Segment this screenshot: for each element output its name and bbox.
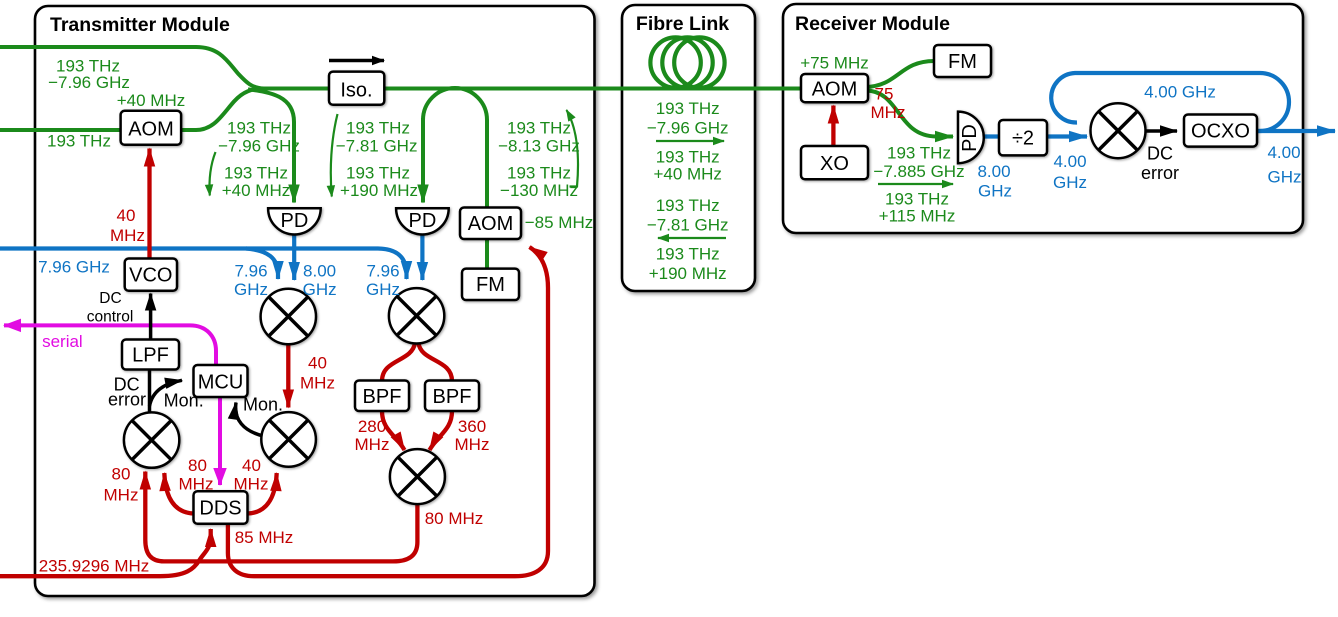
wire green coupler tap down to PD1 — [248, 89, 294, 202]
svg-text:4.00 GHz: 4.00 GHz — [1144, 83, 1216, 102]
svg-text:DC: DC — [99, 290, 121, 307]
DDS box — [194, 491, 248, 524]
svg-text:GHz: GHz — [234, 280, 268, 299]
svg-text:MHz: MHz — [104, 486, 139, 505]
wire red DDS to mixer3 80 MHz — [164, 473, 194, 514]
svg-text:+40 MHz: +40 MHz — [222, 181, 291, 200]
svg-text:GHz: GHz — [978, 182, 1012, 201]
svg-text:FM: FM — [948, 51, 977, 73]
svg-text:4.00: 4.00 — [1267, 143, 1300, 162]
mixer 6 — [1091, 103, 1146, 158]
FM1 box — [462, 269, 519, 300]
svg-text:MHz: MHz — [234, 475, 269, 494]
svg-text:40: 40 — [308, 354, 327, 373]
wire red VCO to AOM1 — [147, 149, 151, 261]
wire magenta serial output — [4, 325, 216, 366]
svg-text:193 THz: 193 THz — [656, 99, 720, 118]
svg-text:−7.81 GHz: −7.81 GHz — [336, 137, 418, 156]
svg-text:−7.81 GHz: −7.81 GHz — [647, 216, 729, 235]
svg-text:FM: FM — [476, 274, 505, 296]
XO box — [801, 146, 868, 179]
svg-text:193 THz: 193 THz — [887, 144, 951, 163]
svg-text:7.96: 7.96 — [234, 262, 267, 281]
svg-text:−7.96 GHz: −7.96 GHz — [647, 119, 729, 138]
wire red DDS 85 MHz to AOM2 — [228, 247, 548, 576]
wire black mixer4 monitor to MCU — [236, 403, 265, 437]
svg-text:XO: XO — [820, 153, 849, 175]
svg-text:AOM: AOM — [128, 119, 174, 141]
svg-text:error: error — [108, 390, 146, 410]
svg-text:193 THz: 193 THz — [346, 164, 410, 183]
wire green main line Iso to receiver AOM — [384, 87, 802, 91]
svg-text:40: 40 — [117, 206, 136, 225]
wire green AOM3 to PD3 — [866, 91, 953, 137]
svg-text:GHz: GHz — [1268, 168, 1302, 187]
svg-text:−8.13 GHz: −8.13 GHz — [498, 137, 580, 156]
wire green loop tap to PD2 and AOM2 — [423, 88, 487, 208]
wire black LPF to mixer3 — [148, 369, 152, 413]
FM2 box — [934, 45, 991, 77]
svg-text:+75 MHz: +75 MHz — [800, 54, 869, 73]
wire red XO to AOM3 — [831, 106, 835, 147]
svg-text:Mon.: Mon. — [164, 391, 204, 411]
svg-text:80: 80 — [112, 465, 131, 484]
wire magenta MCU to DDS — [218, 396, 222, 485]
svg-text:LPF: LPF — [132, 345, 169, 367]
OCXO box — [1184, 115, 1257, 147]
svg-text:80 MHz: 80 MHz — [425, 509, 484, 528]
AOM2 box — [460, 208, 521, 240]
wire blue PD3 to div2 — [982, 134, 1000, 138]
svg-text:75: 75 — [875, 85, 894, 104]
green annotation arrow PD1 column — [209, 152, 215, 196]
svg-text:error: error — [1141, 163, 1179, 183]
wire blue main 7.96 GHz line to mixer2 — [0, 249, 407, 280]
wire green AOM2 to FM — [485, 239, 489, 269]
wire blue PD1 to mixer1 — [292, 234, 296, 280]
fibre link module box — [622, 5, 755, 291]
svg-text:Iso.: Iso. — [340, 79, 372, 101]
MCU box — [194, 365, 248, 397]
svg-text:MHz: MHz — [355, 435, 390, 454]
svg-text:−85 MHz: −85 MHz — [525, 213, 594, 232]
svg-text:360: 360 — [458, 417, 486, 436]
svg-text:−130 MHz: −130 MHz — [500, 181, 578, 200]
svg-text:40: 40 — [242, 456, 261, 475]
svg-text:85 MHz: 85 MHz — [235, 528, 294, 547]
svg-text:AOM: AOM — [468, 213, 514, 235]
svg-text:MHz: MHz — [455, 435, 490, 454]
wire black mixer6 to OCXO DC error — [1145, 129, 1177, 133]
AOM3 box — [801, 74, 868, 102]
svg-text:GHz: GHz — [1053, 173, 1087, 192]
wire red BPF1 to mixer5 — [382, 411, 405, 450]
receiver module box — [783, 4, 1303, 233]
wire green AOM3 to FM2 — [866, 61, 934, 87]
wire blue div2 to mixer6 — [1047, 134, 1087, 138]
wire black monitor tap to MCU — [150, 380, 183, 406]
green annotation arrow receiver PD input — [878, 183, 953, 185]
wire red mixer2 to BPF1 — [382, 343, 415, 381]
svg-text:−7.885 GHz: −7.885 GHz — [873, 162, 964, 181]
PD3 photodiode — [958, 112, 984, 164]
svg-text:7.96: 7.96 — [366, 262, 399, 281]
svg-text:Transmitter Module: Transmitter Module — [50, 14, 230, 36]
BPF2 box — [425, 381, 479, 412]
wire red mixer5 output to mixer3 80 MHz — [145, 472, 417, 562]
svg-text:+190 MHz: +190 MHz — [340, 181, 418, 200]
mixer 4 — [261, 412, 316, 467]
svg-text:193 THz: 193 THz — [656, 196, 720, 215]
svg-text:AOM: AOM — [812, 79, 858, 101]
svg-text:193 THz: 193 THz — [227, 119, 291, 138]
svg-text:MHz: MHz — [871, 103, 906, 122]
wire blue OCXO output — [1257, 129, 1335, 133]
wire red BPF2 to mixer5 — [430, 411, 453, 450]
svg-text:193 THz: 193 THz — [507, 119, 571, 138]
green annotation arrow PD2 column — [331, 114, 338, 197]
svg-text:MHz: MHz — [179, 475, 214, 494]
svg-text:−7.96 GHz: −7.96 GHz — [48, 73, 130, 92]
svg-text:Receiver Module: Receiver Module — [795, 13, 950, 35]
svg-text:193 THz: 193 THz — [346, 119, 410, 138]
wire green input to AOM1 — [0, 128, 121, 132]
mixer 5 — [390, 449, 445, 504]
svg-text:7.96 GHz: 7.96 GHz — [38, 258, 110, 277]
wire black LPF to VCO DC control — [149, 294, 153, 342]
svg-text:BPF: BPF — [433, 386, 472, 408]
svg-text:193 THz: 193 THz — [47, 132, 111, 151]
svg-text:193 THz: 193 THz — [224, 164, 288, 183]
svg-text:MHz: MHz — [300, 374, 335, 393]
svg-text:193 THz: 193 THz — [507, 164, 571, 183]
BPF1 box — [355, 381, 409, 412]
svg-text:280: 280 — [358, 417, 386, 436]
wire green main line coupler to Iso — [258, 87, 331, 91]
svg-text:235.9296 MHz: 235.9296 MHz — [39, 557, 150, 576]
Iso box — [329, 72, 384, 105]
svg-text:DDS: DDS — [199, 498, 241, 520]
PD1 photodiode — [268, 208, 321, 234]
fibre coil circle right — [674, 37, 724, 87]
AOM1 box — [121, 111, 182, 145]
wire blue PD2 to mixer2 — [420, 234, 424, 280]
svg-text:80: 80 — [188, 456, 207, 475]
svg-text:control: control — [87, 309, 134, 326]
svg-text:4.00: 4.00 — [1053, 152, 1086, 171]
svg-text:+40 MHz: +40 MHz — [117, 91, 186, 110]
wire red DDS to mixer4 40 MHz — [247, 473, 276, 514]
wire red 235.9296 MHz input to DDS — [0, 529, 211, 576]
svg-text:+40 MHz: +40 MHz — [653, 165, 722, 184]
green annotation arrow AOM2 column up — [567, 110, 579, 187]
PD2 photodiode — [396, 208, 449, 234]
green annotation arrow fibre backward — [658, 237, 726, 239]
black arrow above Iso — [329, 59, 384, 63]
svg-text:PD: PD — [959, 124, 981, 152]
svg-text:8.00: 8.00 — [303, 262, 336, 281]
svg-text:−7.96 GHz: −7.96 GHz — [218, 137, 300, 156]
div2 box — [999, 120, 1047, 155]
svg-text:GHz: GHz — [366, 280, 400, 299]
svg-text:OCXO: OCXO — [1191, 121, 1250, 143]
mixer 3 — [124, 412, 179, 467]
svg-text:serial: serial — [42, 332, 83, 351]
wire green top-left input — [0, 47, 264, 89]
fibre coil circle left — [650, 37, 700, 87]
svg-text:193 THz: 193 THz — [656, 245, 720, 264]
svg-text:GHz: GHz — [303, 280, 337, 299]
svg-text:+115 MHz: +115 MHz — [879, 206, 956, 225]
wire red mixer2 to BPF2 — [419, 343, 453, 381]
svg-text:Fibre Link: Fibre Link — [636, 13, 729, 35]
transmitter module box — [35, 6, 595, 596]
wire red mixer1 to mixer4 40 MHz — [286, 344, 290, 408]
svg-text:MCU: MCU — [198, 371, 244, 393]
svg-text:PD: PD — [409, 210, 437, 232]
mixer 2 — [389, 288, 444, 343]
svg-text:MHz: MHz — [110, 226, 145, 245]
svg-text:PD: PD — [281, 210, 309, 232]
svg-text:Mon.: Mon. — [243, 395, 283, 415]
svg-text:+190 MHz: +190 MHz — [649, 264, 727, 283]
wire blue branch to mixer1 — [246, 249, 278, 280]
wire blue feedback loop — [1051, 73, 1289, 131]
svg-text:BPF: BPF — [363, 386, 402, 408]
svg-text:÷2: ÷2 — [1012, 128, 1034, 150]
mixer 1 — [261, 289, 316, 344]
green annotation arrow fibre forward — [656, 140, 724, 142]
LPF box — [122, 340, 179, 370]
VCO box — [125, 259, 177, 291]
fibre coil circle middle — [662, 37, 712, 87]
wire green AOM1 to coupler — [181, 89, 264, 131]
svg-text:VCO: VCO — [129, 265, 172, 287]
svg-text:8.00: 8.00 — [977, 162, 1010, 181]
svg-text:DC: DC — [1147, 144, 1173, 164]
